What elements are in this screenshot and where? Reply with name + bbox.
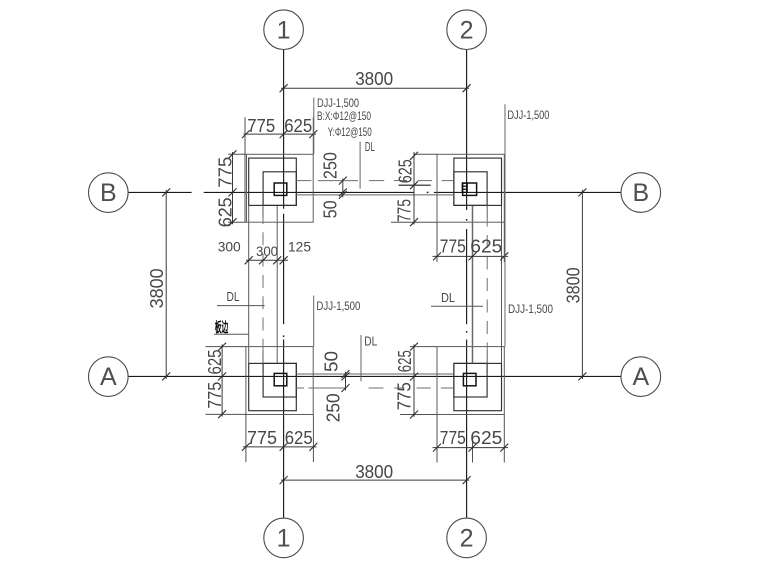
dim tick bottom right: [463, 476, 471, 484]
svg-text:2: 2: [460, 525, 474, 553]
dim line 250/50 top beam: [342, 178, 344, 197]
dim tick bottom left: [280, 476, 288, 484]
dim ticks bottom beam: [342, 370, 350, 378]
footing BR step square 3: [454, 363, 487, 397]
svg-text:250: 250: [323, 393, 343, 422]
svg-text:50: 50: [322, 351, 342, 372]
extension stub TL footing top edge to left dim line: [228, 153, 246, 155]
extension TR footing left edge below to dim: [436, 222, 438, 262]
grid axis line 1 (vertical, lower segment): [283, 340, 285, 518]
svg-text:50: 50: [321, 200, 341, 218]
grid axis line B (horizontal, main segment): [204, 191, 414, 193]
grid axis line 2 (vertical, middle segment): [466, 229, 468, 324]
svg-text:775: 775: [205, 382, 225, 409]
dim line TR below 775/625: [433, 255, 509, 257]
svg-text:775: 775: [247, 428, 277, 448]
grid axis line 1 dash dot: [283, 335, 284, 337]
DL beam left dash-dot line x263: [262, 219, 264, 350]
DL beam right: edge line x472.5: [472, 206, 474, 363]
dim ticks TL top: [242, 130, 250, 138]
DL beam left: edge line x277.2: [276, 206, 278, 363]
svg-text:3800: 3800: [147, 268, 167, 308]
svg-text:2: 2: [460, 16, 474, 44]
dim tick right top: [578, 188, 586, 196]
svg-text:1: 1: [277, 16, 291, 44]
dim line 3800 bottom: [281, 479, 469, 481]
extension BR footing right edge below to dim: [503, 415, 505, 463]
grid axis line B (horizontal, left segment): [128, 191, 192, 193]
dim line TR left vertical 625/775: [413, 152, 415, 225]
svg-text:250: 250: [321, 152, 341, 179]
dim line BR below 775/625: [433, 447, 509, 449]
DL beam left: step edge line x248.7: [248, 205, 250, 363]
grid axis line A (horizontal): [128, 375, 621, 377]
footing BR step square 2: [454, 363, 502, 410]
grid bubble B left: [89, 173, 129, 213]
extension TR footing bottom edge extended left: [391, 221, 437, 223]
extension BR footing bottom edge extended left: [400, 414, 437, 416]
extension BL footing left edge below to dim: [245, 415, 247, 463]
svg-text:Y:Φ12@150: Y:Φ12@150: [328, 125, 372, 139]
leader DL top: [359, 142, 361, 189]
footing BL column section: [274, 373, 287, 385]
extension BL footing top edge long left stub: [206, 346, 246, 348]
dim ticks TR below: [433, 252, 441, 260]
svg-text:DL: DL: [441, 290, 455, 305]
svg-text:1: 1: [277, 525, 291, 553]
DL beam left: solid stub above dashdot x263: [262, 205, 264, 218]
DL beam top dashed edge: [296, 180, 311, 182]
dim ticks BR below: [433, 444, 441, 452]
svg-text:B: B: [100, 179, 117, 207]
svg-text:775: 775: [395, 382, 415, 410]
extension TR footing right edge below to dim: [503, 222, 505, 262]
dim line 50/250 bottom beam: [345, 372, 347, 391]
DL beam right dashed line x487.2: [486, 219, 488, 350]
extension BL footing right edge below to dim: [312, 415, 314, 463]
leader underline slab edge: [214, 333, 249, 335]
svg-text:625: 625: [470, 236, 502, 256]
svg-text:A: A: [100, 363, 117, 391]
extension TL footing right edge up to top dim text: [312, 117, 314, 154]
svg-text:775: 775: [215, 157, 235, 188]
extension TR chain reference line 185 dark: [399, 184, 431, 186]
grid bubble 1 top: [264, 10, 304, 50]
grid bubble 2 bottom: [447, 518, 487, 558]
extension BR footing left edge below to dim: [436, 415, 438, 463]
svg-text:DL: DL: [365, 139, 375, 154]
svg-text:3800: 3800: [355, 462, 393, 482]
dim ticks top beam: [339, 177, 347, 185]
svg-text:3800: 3800: [564, 267, 584, 303]
svg-text:625: 625: [215, 197, 235, 227]
dim line 3800 right: [581, 190, 583, 379]
svg-text:DL: DL: [364, 333, 377, 348]
svg-text:A: A: [632, 363, 649, 391]
leader underline DL center-right: [431, 305, 483, 307]
dim tick top right: [463, 84, 471, 92]
grid bubble 1 bottom: [264, 518, 304, 558]
footing TR column section: [463, 183, 477, 195]
DL beam top solid edge: [296, 194, 454, 196]
footing TR outer pad square: [437, 154, 504, 222]
leader DJJ top-left: [313, 98, 315, 155]
svg-text:625: 625: [395, 159, 415, 183]
footing TR column mark hatch: [462, 183, 467, 192]
dim ticks BL below: [242, 443, 250, 451]
grid axis line 2 dash dots: [466, 219, 467, 221]
grid axis line B dash dot: [427, 192, 429, 193]
svg-text:3800: 3800: [355, 69, 393, 89]
svg-text:775: 775: [395, 199, 415, 222]
footing BL step square 3: [263, 363, 296, 397]
grid axis line 1 (vertical, upper segment): [283, 50, 285, 209]
extension stub TL footing bottom edge to left dim line: [228, 221, 246, 223]
dim line BL below 775/625: [243, 446, 317, 448]
dim line TL left 775/625: [232, 152, 234, 224]
footing TR step square 3: [454, 172, 487, 206]
svg-text:775: 775: [440, 236, 466, 256]
dim ticks BL left vertical: [218, 343, 226, 351]
svg-text:B:X:Φ12@150: B:X:Φ12@150: [317, 109, 371, 123]
grid bubble A left: [89, 357, 129, 397]
leader DJJ mid-left: [313, 296, 315, 347]
leader DJJ top-right / right edge extension line: [504, 104, 506, 346]
footing TR step square 2: [454, 158, 502, 205]
svg-text:DJJ-1,500: DJJ-1,500: [507, 108, 549, 122]
svg-text:625: 625: [205, 350, 225, 375]
grid axis line 2 (vertical, lower segment): [466, 340, 468, 518]
DL beam bottom dashed edge: [296, 387, 304, 389]
dim line BR left vertical 625/775: [413, 344, 415, 416]
grid axis line B (horizontal, right segment): [434, 191, 621, 193]
svg-text:625: 625: [395, 350, 415, 372]
DL beam bottom solid edge: [296, 373, 454, 375]
svg-text:300: 300: [256, 243, 278, 259]
grid axis line 1 (vertical, middle segment): [283, 214, 285, 324]
footing TL column section: [274, 183, 287, 195]
svg-text:775: 775: [440, 428, 466, 448]
svg-text:B: B: [632, 179, 649, 207]
grid axis line 2 (vertical, upper segment): [466, 50, 468, 210]
svg-text:625: 625: [284, 116, 312, 136]
footing BR outer pad square: [437, 347, 504, 415]
dim tick right bottom: [578, 372, 586, 380]
extension BR mid reference below dim stub: [472, 440, 474, 463]
extension TL long left extension line: [244, 117, 246, 222]
dim tick left top: [162, 188, 170, 196]
footing TL step square 3: [263, 172, 296, 206]
dim line BL left vertical 625/775: [221, 344, 223, 416]
leader underline DL left: [217, 305, 265, 307]
dim ticks TR left vertical: [410, 152, 418, 160]
leader DL mid: [360, 335, 362, 381]
grid bubble A right: [621, 357, 661, 397]
svg-text:775: 775: [247, 116, 275, 136]
svg-text:DJJ-1,500: DJJ-1,500: [316, 299, 360, 313]
svg-text:625: 625: [285, 428, 313, 448]
footing TL step square 2: [249, 158, 297, 205]
footing BL outer pad square: [246, 347, 313, 415]
dim line 300/300/125 below TL footing: [246, 259, 288, 261]
dim tick left bottom: [162, 372, 170, 380]
dim line 3800 top: [281, 87, 469, 89]
grid bubble B right: [621, 173, 661, 213]
dim tick top left: [280, 84, 288, 92]
dim ticks BR left vertical: [410, 343, 418, 351]
dim line TL top 775/625: [244, 133, 317, 135]
footing BR column section: [463, 373, 476, 385]
svg-text:DJJ-1,500: DJJ-1,500: [317, 96, 359, 110]
DL beam right: solid stub below dashed x487.2: [486, 350, 488, 363]
extension TR footing top edge extended to dim line: [414, 153, 437, 155]
extension BR footing top edge extended to dim line: [410, 346, 437, 348]
DL beam right: step edge line x501.5: [501, 205, 503, 363]
footing TL outer pad square: [247, 154, 314, 222]
svg-text:板边: 板边: [215, 319, 229, 335]
DL beam right: solid stub above dashed x487.2: [486, 205, 488, 218]
dim line 3800 left: [165, 190, 167, 379]
dim ticks TL left: [229, 150, 237, 158]
dim ticks 300/300/125: [245, 256, 253, 264]
svg-text:125: 125: [288, 238, 311, 254]
svg-text:300: 300: [218, 238, 241, 254]
DL beam left: solid stub below dashdot x263: [262, 350, 264, 363]
svg-text:DL: DL: [227, 289, 240, 304]
footing BL step square 2: [249, 363, 297, 410]
svg-text:625: 625: [470, 428, 502, 448]
grid bubble 2 top: [447, 10, 487, 50]
extension BL footing bottom edge long left stub: [206, 413, 246, 415]
svg-text:DJJ-1,500: DJJ-1,500: [508, 302, 553, 316]
